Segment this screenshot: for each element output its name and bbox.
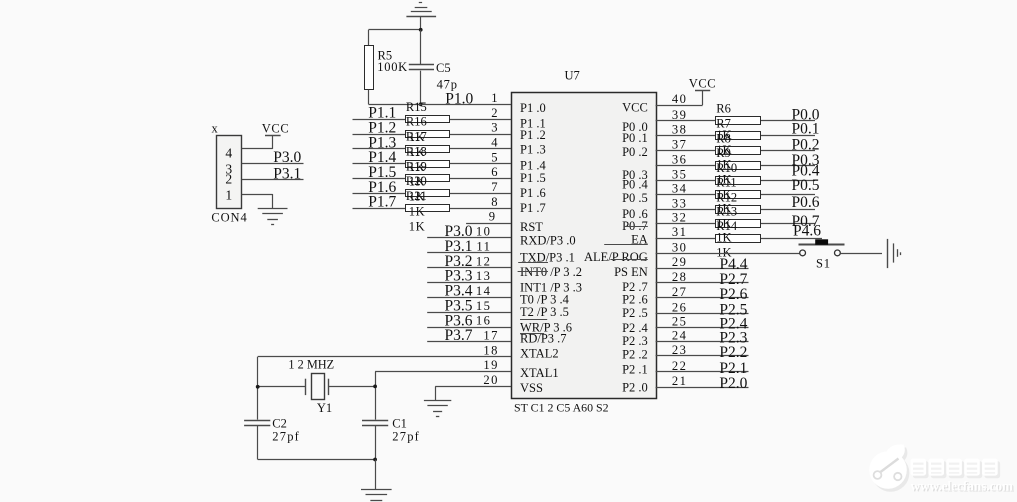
svg-text:P3.0: P3.0 — [273, 149, 301, 166]
wire VSS pin 20 — [435, 386, 511, 388]
wire P2.6 pin 27 — [656, 297, 749, 299]
wire top node horizontal (R5 to C5 top) — [369, 29, 421, 31]
svg-text:1K: 1K — [409, 204, 425, 218]
svg-text:ST C1 2 C5 A60 S2: ST C1 2 C5 A60 S2 — [514, 401, 609, 415]
resistor R20 — [406, 190, 450, 197]
svg-text:20: 20 — [483, 373, 498, 387]
wire VCC pin 40 — [656, 105, 703, 107]
IC U7 body — [512, 93, 657, 399]
junction dot xtal bottom — [373, 458, 377, 462]
svg-text:R11: R11 — [716, 175, 736, 189]
svg-text:15: 15 — [476, 299, 491, 313]
svg-text:R10: R10 — [716, 161, 737, 175]
svg-text:P1 .2: P1 .2 — [520, 128, 546, 142]
underline of EA — [604, 244, 648, 246]
resistor R13 — [716, 220, 761, 228]
svg-text:C2: C2 — [272, 416, 287, 430]
svg-text:VCC: VCC — [262, 121, 290, 135]
svg-text:36: 36 — [672, 152, 687, 166]
resistor R10 — [716, 177, 761, 185]
svg-text:1: 1 — [491, 91, 499, 105]
svg-text:37: 37 — [672, 138, 687, 152]
svg-text:U7: U7 — [565, 69, 580, 83]
svg-text:4: 4 — [225, 145, 232, 160]
svg-text:P0.5: P0.5 — [792, 177, 820, 194]
svg-text:P1 .0: P1 .0 — [520, 101, 546, 115]
svg-text:RST: RST — [520, 220, 543, 234]
svg-text:2: 2 — [225, 172, 232, 187]
svg-text:7: 7 — [491, 180, 499, 194]
svg-text:P2.2: P2.2 — [719, 344, 747, 361]
capacitor C1 — [362, 420, 388, 422]
svg-text:P2 .0: P2 .0 — [622, 380, 648, 394]
svg-text:CON4: CON4 — [211, 210, 247, 224]
svg-text:P1 .7: P1 .7 — [520, 201, 546, 215]
svg-text:16: 16 — [476, 314, 491, 328]
svg-text:5: 5 — [491, 150, 499, 164]
capacitor C5 — [420, 30, 422, 64]
svg-text:26: 26 — [672, 300, 687, 314]
wire CON4 pin3 P3.0 — [242, 163, 304, 165]
wire mid vertical xtal branch — [375, 372, 377, 420]
resistor R9 — [716, 162, 761, 170]
svg-text:P2 .4: P2 .4 — [622, 321, 648, 335]
svg-text:6: 6 — [491, 165, 499, 179]
svg-text:C1: C1 — [392, 416, 407, 430]
wire P1.6 to pin 7 — [353, 193, 512, 195]
svg-text:33: 33 — [672, 197, 687, 211]
wire CON4 pin4 to VCC — [242, 148, 273, 150]
overline artifact on P0.7 — [624, 226, 648, 228]
svg-text:25: 25 — [672, 314, 687, 328]
svg-text:1K: 1K — [409, 219, 425, 233]
svg-text:x: x — [212, 122, 219, 136]
wire P2.1 pin 22 — [656, 371, 749, 373]
wire P3.6 to pin 16 — [427, 327, 511, 329]
svg-text:R9: R9 — [716, 146, 731, 160]
svg-text:10: 10 — [476, 225, 491, 239]
svg-text:S1: S1 — [816, 257, 831, 271]
svg-text:P0.1: P0.1 — [792, 121, 820, 138]
wire P0 row pin 32 — [656, 223, 815, 225]
svg-text:P1 .5: P1 .5 — [520, 171, 546, 185]
svg-text:R12: R12 — [716, 190, 737, 204]
resistor R7 — [716, 132, 761, 140]
svg-text:P1 .3: P1 .3 — [520, 142, 546, 156]
wire switch to ground — [840, 253, 882, 255]
svg-text:R13: R13 — [716, 204, 737, 218]
underline of TXD — [518, 262, 548, 264]
svg-text:VCC: VCC — [689, 77, 717, 91]
resistor R5 — [368, 30, 370, 46]
svg-text:39: 39 — [672, 108, 687, 122]
wire RST pin 9 — [466, 223, 511, 225]
wire P3.0 to pin 10 — [427, 237, 511, 239]
resistor R12 — [716, 206, 761, 214]
wire left vertical xtal branch — [257, 357, 259, 420]
svg-text:P2.0: P2.0 — [719, 375, 747, 392]
svg-text:34: 34 — [672, 182, 687, 196]
wire PSEN pin 29 P4.4 — [656, 268, 749, 270]
svg-text:R20: R20 — [406, 174, 427, 188]
svg-text:C5: C5 — [436, 61, 451, 75]
wire XTAL2 pin 18 — [258, 356, 511, 358]
wire P2.0 pin 21 — [656, 387, 749, 389]
svg-text:32: 32 — [672, 211, 687, 225]
power VCC symbol top right — [695, 90, 710, 92]
svg-text:P0 .2: P0 .2 — [622, 145, 648, 159]
svg-text:13: 13 — [476, 269, 491, 283]
power symbol top (inverted earth) above C5 — [406, 16, 436, 18]
svg-text:3: 3 — [491, 121, 499, 135]
svg-text:8: 8 — [491, 195, 499, 209]
svg-text:100K: 100K — [377, 60, 408, 74]
underline of T2 — [520, 319, 547, 321]
wire P1.5 to pin 6 — [353, 178, 512, 180]
svg-text:40: 40 — [672, 92, 687, 106]
wire P1.2 to pin 3 — [353, 134, 512, 136]
svg-text:1: 1 — [225, 187, 232, 202]
resistor R6 — [716, 117, 761, 125]
ground sideways right of S1 — [887, 239, 889, 268]
wire P3.1 to pin 11 — [427, 252, 511, 254]
junction dot crystal left — [256, 385, 260, 389]
svg-text:P4.6: P4.6 — [793, 222, 821, 239]
svg-text:ALE/P ROG: ALE/P ROG — [584, 250, 648, 264]
connector CON4 body — [217, 136, 242, 209]
svg-text:18: 18 — [483, 343, 498, 357]
wire xtal bottom — [258, 459, 375, 461]
underline of WR — [520, 333, 544, 335]
svg-text:R7: R7 — [716, 117, 731, 131]
junction dot P1.0 node — [419, 102, 423, 106]
wire P1.1 to pin 2 — [353, 119, 512, 121]
resistor R18 — [406, 161, 450, 168]
wire P0 row pin 38 — [656, 135, 815, 137]
wire P0 row pin 39 — [656, 120, 815, 122]
junction dot top node — [419, 28, 423, 32]
svg-text:P2 .3: P2 .3 — [622, 334, 648, 348]
svg-text:VSS: VSS — [520, 381, 543, 395]
svg-text:T2 /P 3 .5: T2 /P 3 .5 — [520, 305, 569, 319]
resistor R14 — [716, 235, 761, 243]
wire P0 row pin 35 — [656, 180, 815, 182]
resistor R21 — [406, 205, 450, 212]
wire P0 row pin 37 — [656, 150, 815, 152]
svg-text:R19: R19 — [406, 159, 427, 173]
svg-text:R8: R8 — [716, 131, 731, 145]
svg-text:35: 35 — [672, 167, 687, 181]
svg-text:38: 38 — [672, 123, 687, 137]
resistor R11 — [716, 191, 761, 199]
svg-text:P2 .6: P2 .6 — [622, 293, 648, 307]
svg-text:4: 4 — [491, 135, 499, 149]
svg-text:P3.7: P3.7 — [445, 327, 473, 344]
svg-text:R14: R14 — [716, 219, 738, 233]
svg-text:29: 29 — [672, 255, 687, 269]
watermark chinese characters — [911, 459, 1001, 479]
wire P3.4 to pin 14 — [427, 297, 511, 299]
svg-text:21: 21 — [672, 374, 687, 388]
resistor R19 — [406, 175, 450, 182]
wire P0 row pin 31 — [656, 238, 822, 240]
svg-text:P0.6: P0.6 — [792, 194, 820, 211]
svg-text:R6: R6 — [716, 102, 731, 116]
wire P0 row pin 34 — [656, 194, 815, 196]
svg-text:P0 .7: P0 .7 — [622, 219, 648, 233]
power VCC symbol at CON4 — [265, 135, 281, 137]
svg-text:19: 19 — [483, 358, 498, 372]
svg-text:R21: R21 — [406, 189, 427, 203]
resistor R8 — [716, 147, 761, 155]
svg-text:R16: R16 — [406, 115, 427, 129]
ground xtal bottom — [375, 460, 377, 490]
resistor R16 — [406, 131, 450, 138]
wire P2.4 pin 25 — [656, 327, 749, 329]
wire P1.7 to pin 8 — [353, 208, 512, 210]
svg-text:R18: R18 — [406, 144, 427, 158]
svg-text:9: 9 — [489, 210, 497, 224]
svg-text:P1.7: P1.7 — [368, 194, 396, 211]
underline of ALE/PROG — [610, 259, 647, 261]
wire P2.7 pin 28 — [656, 282, 749, 284]
svg-text:1 2 MHZ: 1 2 MHZ — [288, 358, 334, 372]
wire P3.2 to pin 12 — [427, 267, 511, 269]
wire P2.5 pin 26 — [656, 313, 749, 315]
wire P1.0 to pin 1 — [369, 104, 512, 106]
capacitor C2 — [244, 420, 270, 422]
watermark logo circle — [869, 444, 909, 491]
ground at CON4 — [258, 208, 288, 210]
svg-text:R15: R15 — [406, 100, 427, 114]
resistor R15 — [406, 116, 450, 123]
strikeline on INT0 — [518, 271, 548, 273]
svg-text:14: 14 — [476, 284, 491, 298]
svg-text:31: 31 — [672, 225, 687, 239]
svg-text:P1 .6: P1 .6 — [520, 186, 546, 200]
svg-text:P0 .4: P0 .4 — [622, 177, 648, 191]
svg-text:VCC: VCC — [622, 100, 648, 114]
svg-text:RXD/P3 .0: RXD/P3 .0 — [520, 234, 576, 248]
svg-text:www.elecfans.com: www.elecfans.com — [911, 478, 1014, 493]
svg-text:17: 17 — [483, 329, 498, 343]
svg-text:24: 24 — [672, 328, 687, 342]
svg-text:47p: 47p — [437, 77, 458, 91]
crystal Y1 — [258, 386, 306, 388]
wire P3.5 to pin 15 — [427, 312, 511, 314]
svg-text:P0 .5: P0 .5 — [622, 191, 648, 205]
svg-text:R17: R17 — [406, 130, 427, 144]
resistor R17 — [406, 146, 450, 153]
svg-text:2: 2 — [491, 106, 499, 120]
svg-text:27pf: 27pf — [392, 430, 420, 444]
svg-text:P3.1: P3.1 — [273, 165, 301, 182]
wire ALE pin 30 to switch — [656, 253, 800, 255]
svg-text:27pf: 27pf — [272, 430, 300, 444]
wire P2.2 pin 23 — [656, 355, 749, 357]
svg-text:P2 .2: P2 .2 — [622, 347, 648, 361]
svg-text:P2 .5: P2 .5 — [622, 306, 648, 320]
wire P1.3 to pin 4 — [353, 148, 512, 150]
svg-text:PS EN: PS EN — [614, 265, 648, 279]
wire P3.7 to pin 17 — [427, 341, 511, 343]
svg-text:11: 11 — [476, 239, 491, 253]
svg-text:12: 12 — [476, 254, 491, 268]
svg-text:P0 .1: P0 .1 — [622, 131, 648, 145]
ground at VSS pin 20 — [435, 386, 437, 400]
svg-text:P1.0: P1.0 — [445, 91, 473, 108]
svg-text:XTAL1: XTAL1 — [520, 366, 559, 380]
wire CON4 pin1 to ground — [242, 194, 273, 196]
wire P2.3 pin 24 — [656, 341, 749, 343]
svg-text:XTAL2: XTAL2 — [520, 347, 559, 361]
junction dot crystal right — [373, 385, 377, 389]
svg-text:30: 30 — [672, 240, 687, 254]
switch S1 — [799, 244, 845, 246]
wire P0 row pin 36 — [656, 165, 815, 167]
wire P0 row pin 33 — [656, 209, 815, 211]
wire P3.3 to pin 13 — [427, 282, 511, 284]
wire XTAL1 pin 19 — [375, 371, 511, 373]
wire P1.4 to pin 5 — [353, 163, 512, 165]
svg-text:Y1: Y1 — [317, 401, 332, 415]
svg-text:P2 .1: P2 .1 — [622, 363, 648, 377]
wire CON4 pin2 P3.1 — [242, 179, 304, 181]
